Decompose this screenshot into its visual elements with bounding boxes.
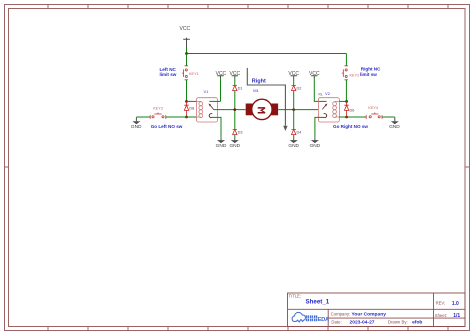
svg-text:KEY2: KEY2: [350, 74, 360, 78]
svg-text:Date:: Date:: [331, 319, 341, 324]
svg-text:M1: M1: [253, 88, 259, 93]
svg-text:D4: D4: [297, 130, 302, 134]
junction: [233, 108, 236, 111]
wire: [220, 76, 222, 101]
wire: [212, 117, 221, 137]
junction: [185, 52, 188, 55]
svg-text:VCC: VCC: [216, 71, 227, 77]
svg-text:KEY1: KEY1: [189, 72, 199, 76]
wire: [293, 135, 295, 138]
junction: [185, 100, 188, 103]
svg-text:D2: D2: [297, 86, 302, 90]
svg-text:VCC: VCC: [180, 26, 191, 32]
svg-text:efob: efob: [412, 320, 422, 326]
svg-text:GND: GND: [131, 124, 142, 130]
wire: [187, 53, 347, 55]
svg-text:D8: D8: [189, 106, 194, 110]
diode D4: [292, 129, 296, 134]
svg-text:V2: V2: [325, 91, 331, 96]
ground: [216, 138, 227, 149]
wire: [234, 135, 236, 138]
svg-text:Sheet_1: Sheet_1: [306, 299, 330, 306]
motor M1: [246, 99, 278, 119]
svg-text:GND: GND: [229, 143, 240, 149]
ground: [288, 138, 299, 149]
svg-text:VCC: VCC: [230, 71, 241, 77]
svg-text:1.0: 1.0: [452, 301, 459, 307]
diode D8: [184, 101, 188, 117]
ground: [229, 138, 240, 149]
wire: [166, 116, 197, 118]
wire: [315, 117, 324, 137]
ground: [131, 117, 142, 130]
wire: [293, 91, 295, 130]
relay V2: [318, 98, 339, 122]
svg-text:Right: Right: [252, 79, 266, 85]
junction: [185, 116, 188, 119]
wire: [187, 100, 197, 102]
wire: [186, 54, 188, 67]
power flag VCC: [232, 76, 238, 78]
svg-text:D6: D6: [350, 108, 355, 112]
svg-text:KEY3: KEY3: [153, 107, 163, 111]
svg-text:D3: D3: [238, 130, 243, 134]
svg-text:RL: RL: [318, 93, 322, 97]
diode D6: [344, 101, 348, 117]
svg-text:KEY4: KEY4: [368, 106, 378, 110]
wire: [314, 78, 326, 101]
svg-text:GND: GND: [310, 143, 321, 149]
junction: [345, 116, 348, 119]
switch KEY2: [342, 66, 348, 80]
svg-text:1/1: 1/1: [453, 313, 460, 319]
net port Right: [247, 68, 287, 131]
junction: [345, 100, 348, 103]
svg-text:GND: GND: [216, 143, 227, 149]
wire: [382, 116, 395, 118]
power flag VCC: [217, 76, 223, 78]
wire: [339, 116, 346, 118]
junction: [292, 108, 295, 111]
svg-text:Your Company: Your Company: [352, 312, 387, 318]
svg-text:GND: GND: [288, 143, 299, 149]
title block (decorative): [288, 293, 466, 327]
svg-text:Company:: Company:: [331, 311, 351, 316]
wire: [293, 78, 295, 85]
switch KEY3: [150, 113, 166, 119]
wire: [339, 100, 346, 102]
power flag VCC: [311, 76, 317, 78]
svg-text:Drawn By:: Drawn By:: [388, 319, 408, 324]
svg-text:VCC: VCC: [309, 71, 320, 77]
wire: [209, 100, 220, 102]
switch KEY4: [366, 113, 382, 119]
svg-text:TITLE:: TITLE:: [289, 294, 302, 299]
diode D2: [292, 85, 296, 90]
svg-text:REV:: REV:: [436, 301, 446, 306]
svg-text:GND: GND: [389, 124, 400, 130]
wire: [234, 78, 236, 85]
power flag VCC: [291, 76, 297, 78]
relay V1: [197, 98, 218, 122]
ground: [310, 138, 321, 149]
wire: [345, 54, 347, 67]
wire: [186, 47, 188, 54]
svg-text:EDA: EDA: [318, 317, 329, 323]
switch KEY1: [182, 66, 188, 80]
svg-text:Go Right NO sw: Go Right NO sw: [333, 124, 368, 129]
svg-text:limit sw: limit sw: [360, 72, 377, 77]
wire: [234, 91, 236, 130]
svg-text:D1: D1: [238, 86, 243, 90]
svg-text:V1: V1: [204, 89, 210, 94]
wire: [347, 116, 367, 118]
wire: [213, 109, 245, 111]
power flag VCC (top): [183, 38, 190, 47]
logo (decorative): [292, 312, 329, 323]
wire: [186, 80, 188, 101]
svg-text:Right NC: Right NC: [361, 67, 381, 72]
svg-text:VCC: VCC: [288, 71, 299, 77]
svg-text:Sheet:: Sheet:: [435, 313, 447, 318]
diode D3: [233, 129, 237, 134]
wire: [278, 109, 318, 111]
wire: [136, 116, 150, 118]
wire: [345, 80, 347, 101]
svg-text:limit sw: limit sw: [160, 72, 177, 77]
svg-text:2023-04-27: 2023-04-27: [350, 320, 375, 326]
diode D1: [233, 85, 237, 90]
ground: [389, 117, 400, 130]
svg-text:Go Left NO sw: Go Left NO sw: [151, 124, 183, 129]
